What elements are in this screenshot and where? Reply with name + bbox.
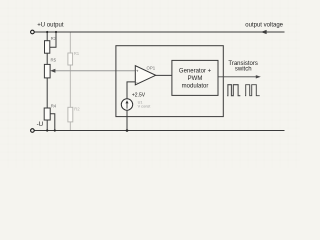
svg-text:modulator: modulator — [182, 83, 209, 89]
svg-text:V const: V const — [138, 105, 152, 109]
svg-text:+: + — [136, 69, 139, 74]
svg-text:+2.5V: +2.5V — [132, 92, 146, 98]
svg-text:output voltage: output voltage — [245, 23, 283, 29]
svg-text:switch: switch — [235, 67, 252, 73]
svg-text:R5: R5 — [51, 58, 57, 63]
svg-text:R3: R3 — [51, 36, 57, 41]
svg-text:R2: R2 — [74, 107, 80, 112]
svg-text:-U: -U — [37, 121, 44, 128]
svg-text:PWM: PWM — [188, 76, 203, 82]
svg-text:R4: R4 — [51, 103, 57, 108]
svg-text:R1: R1 — [74, 51, 80, 56]
svg-text:+U output: +U output — [37, 23, 64, 29]
svg-text:Generator +: Generator + — [179, 69, 212, 75]
svg-text:OP1: OP1 — [147, 65, 156, 70]
